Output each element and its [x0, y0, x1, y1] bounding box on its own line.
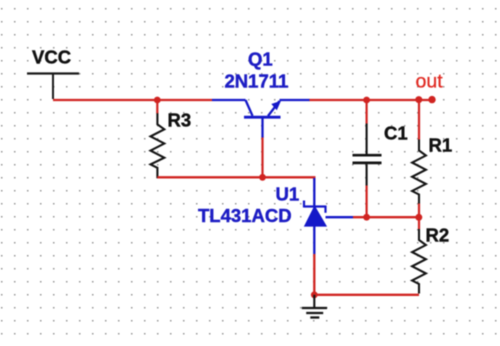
- svg-text:R3: R3: [168, 110, 192, 131]
- wire R2 top stub: [418, 217, 420, 229]
- node junction C1 top: [363, 97, 370, 104]
- wire U1 ref to divider: [353, 216, 419, 218]
- wire bottom rail R2 to ground: [314, 294, 419, 296]
- svg-text:R1: R1: [429, 135, 453, 156]
- node junction R1 R2 divider: [415, 214, 422, 221]
- wire R1 bottom stub: [418, 204, 420, 218]
- wire R1 top stub: [418, 100, 420, 140]
- wire Q1 emitter to out: [309, 99, 432, 101]
- resistor R1: [412, 135, 452, 204]
- svg-text:VCC: VCC: [32, 47, 71, 68]
- node junction R1 top: [415, 96, 422, 103]
- resistor R2: [412, 225, 449, 294]
- wire Q1 base down: [261, 137, 263, 178]
- svg-text:U1: U1: [276, 184, 300, 205]
- node junction R3/top: [154, 97, 161, 104]
- node out terminal: [428, 96, 435, 103]
- power VCC: [27, 47, 79, 100]
- wire C1 top stub: [366, 100, 368, 124]
- svg-text:2N1711: 2N1711: [225, 71, 289, 92]
- svg-text:R2: R2: [426, 225, 450, 246]
- wire C1 bottom stub: [366, 186, 368, 218]
- node junction ground: [311, 291, 318, 298]
- wire U1 anode down: [313, 254, 315, 295]
- wire VCC to Q1 collector: [53, 99, 212, 101]
- capacitor C1: [353, 123, 408, 186]
- svg-text:out: out: [416, 71, 444, 93]
- wire R3 bottom to TL431 cathode: [157, 177, 314, 180]
- wire R3 top stub: [156, 100, 158, 114]
- svg-text:Q1: Q1: [248, 49, 273, 70]
- transistor Q1: [212, 100, 310, 138]
- ground: [302, 295, 327, 318]
- resistor R3: [151, 110, 192, 179]
- node junction Q1 base wire: [259, 174, 266, 181]
- svg-text:C1: C1: [384, 123, 408, 144]
- node junction C1 bottom: [363, 214, 370, 221]
- shunt regulator U1 TL431ACD: [304, 178, 353, 254]
- svg-text:TL431ACD: TL431ACD: [198, 205, 292, 226]
